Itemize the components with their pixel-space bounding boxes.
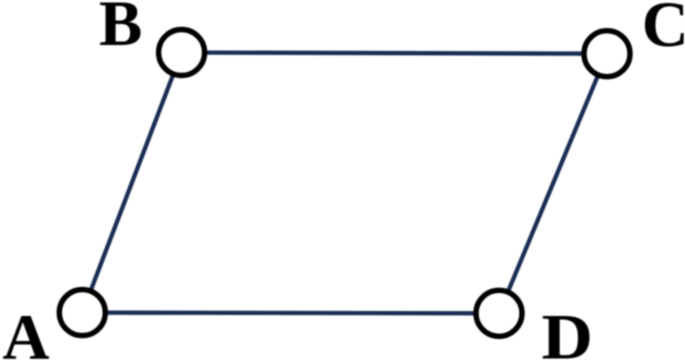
wire BC: [182, 53, 607, 54]
svg-text:B: B: [99, 0, 142, 60]
node B: [159, 30, 205, 76]
node C: [584, 31, 630, 77]
wire AD: [82, 310, 499, 315]
svg-text:C: C: [642, 0, 685, 61]
svg-text:A: A: [3, 302, 50, 360]
wire AB: [82, 53, 181, 313]
node A: [59, 290, 105, 336]
wire CD: [499, 54, 607, 314]
node D: [476, 290, 522, 336]
svg-text:D: D: [542, 302, 594, 360]
